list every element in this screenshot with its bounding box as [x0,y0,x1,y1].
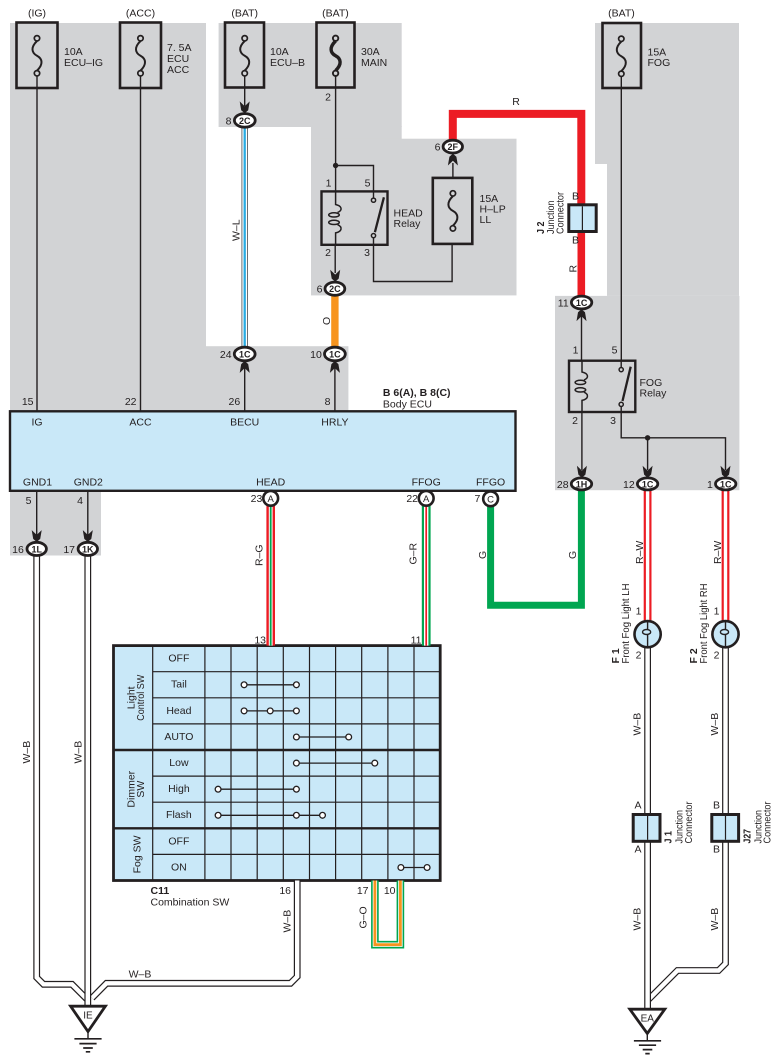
wire fuse ECU-B to connector 2C [244,76,246,106]
svg-text:G: G [567,551,579,559]
junction dot [333,163,338,168]
svg-text:W–B: W–B [709,908,721,931]
pin 11 1C [558,297,569,309]
fuse 7.5A ECU-ACC [120,23,161,89]
lamp F2 front fog light RH [712,621,738,647]
pin 2 HEAD relay [325,247,331,259]
value 7.5A ECU ACC [167,42,192,76]
junction connector J27 [712,815,739,842]
wire W-B combination switch pin 16 to IE [92,881,297,999]
svg-text:W–B: W–B [73,741,85,764]
svg-text:B: B [713,800,720,812]
pin 2 F2 [714,650,720,662]
label (IG) [28,8,46,20]
svg-text:HRLY: HRLY [321,417,348,429]
label G-O [358,906,370,928]
svg-text:GND2: GND2 [74,477,103,489]
svg-text:12: 12 [623,479,635,491]
svg-text:IG: IG [31,417,42,429]
pin 17 1K [63,544,75,556]
value 10A ECU-IG [64,46,103,69]
svg-text:Body ECU: Body ECU [383,399,432,411]
svg-text:11: 11 [411,635,422,647]
svg-text:Tail: Tail [171,679,187,691]
svg-text:Flash: Flash [166,809,192,821]
svg-text:B: B [572,235,579,247]
wire ECU GND1 to 1L [36,491,38,536]
label W-B pin16 [282,910,294,933]
label J27 junction connector [741,801,773,843]
label (ACC) [126,8,155,20]
pin 2 FOG relay [572,415,578,427]
svg-text:13: 13 [254,635,266,647]
pin 22 [125,396,137,408]
pin 15 [22,396,34,408]
connector 24 1C [234,347,255,373]
svg-text:22: 22 [406,493,418,505]
label R below J2 [568,265,580,273]
value 10A ECU-B [270,46,305,69]
connector 12 1C [637,466,657,490]
net HEAD [256,477,286,489]
svg-text:BECU: BECU [230,417,259,429]
svg-text:(BAT): (BAT) [231,8,258,20]
switch contacts auto [294,734,352,740]
svg-text:W–B: W–B [632,908,644,931]
label W-B 1L [21,741,33,764]
connector 23 A [263,491,278,506]
pin 2 F1 [636,650,642,662]
svg-text:ACC: ACC [167,64,190,76]
svg-text:23: 23 [251,493,263,505]
svg-text:(ACC): (ACC) [126,8,155,20]
svg-text:1C: 1C [329,350,341,360]
svg-text:B: B [572,191,579,203]
row Head [166,705,191,717]
svg-text:4: 4 [77,495,83,507]
wire FOG relay pin 2 to 1H [581,412,583,470]
svg-text:ACC: ACC [129,417,152,429]
fuse 15A H-LP LL [433,178,473,244]
label G left [477,551,489,559]
svg-text:G: G [477,551,489,559]
pin 5 GND1 [26,495,32,507]
label G-R [407,542,419,564]
svg-text:FFOG: FFOG [412,477,441,489]
wire W-B 1K to IE [84,556,91,1007]
wire R-G from HEAD 23 to combination switch pin 13 [266,505,275,645]
wire FOG relay pin 3 to 1C 1C [621,412,725,470]
svg-text:A: A [423,494,430,505]
svg-text:16: 16 [12,544,24,556]
net GND1 [23,477,52,489]
row High [168,783,190,795]
pin 13 [254,635,266,647]
label W-B LH upper [632,713,644,736]
wire ECU GND2 to 1K [87,491,89,536]
svg-text:2C: 2C [239,116,251,126]
pin 8 2C [226,115,232,127]
row OFF [168,653,189,665]
connector 1 1C [716,466,736,490]
svg-text:1C: 1C [720,479,732,489]
svg-text:R: R [568,265,580,273]
group light control SW [126,675,148,721]
svg-text:C: C [487,494,494,505]
wire HEAD relay pin 3 to fuse H-LP [374,244,453,282]
label J1 junction connector [663,801,695,843]
fuse 10A ECU-IG [17,23,58,89]
row Low [169,757,189,769]
label B6(A) B8(C) body ECU [383,387,451,411]
junction connector J2 [569,205,596,232]
net FFGO [476,477,505,489]
label W-B horizontal [129,969,152,981]
svg-text:OFF: OFF [168,653,189,665]
net HRLY [321,417,348,429]
pin 1 F1 [636,606,642,618]
pin 4 GND2 [77,495,83,507]
connector 17 1K [78,530,97,555]
svg-text:2C: 2C [329,284,341,294]
switch contacts head [241,708,299,714]
svg-text:FFGO: FFGO [476,477,505,489]
pin 12 1C [623,479,635,491]
svg-text:LL: LL [480,214,492,226]
svg-text:Front Fog Light RH: Front Fog Light RH [698,584,710,664]
svg-text:Fog SW: Fog SW [132,835,144,873]
svg-text:O: O [321,317,333,325]
svg-text:G–O: G–O [358,906,370,928]
label W-B RH upper [709,713,721,736]
svg-text:Head: Head [166,705,191,717]
svg-text:2: 2 [636,650,642,662]
svg-text:1C: 1C [642,479,654,489]
svg-text:1L: 1L [31,544,42,554]
label W-B LH lower [632,908,644,931]
label B above J27 [713,800,720,812]
svg-text:7: 7 [474,493,480,505]
relay HEAD [322,191,388,244]
svg-text:G–R: G–R [407,542,419,564]
label R-W RH [712,541,724,564]
group fog SW [132,835,144,873]
wire fuse MAIN to HEAD relay pin 1 [335,76,337,191]
svg-text:1C: 1C [576,298,588,308]
label A above J1 [634,800,641,812]
pin 22 FFOG [406,493,418,505]
wire W-B fog light RH to EA [649,647,726,999]
pin 23 [251,493,263,505]
net FFOG [412,477,441,489]
pin 1 FOG relay [573,345,579,357]
svg-text:3: 3 [364,247,370,259]
connector 28 1H [571,466,591,490]
svg-text:Combination SW: Combination SW [151,897,230,909]
label (BAT) FOG [608,8,635,20]
pin 16 1L [12,544,24,556]
label R-W LH [634,541,646,564]
wire 1C to ECU pin 8 [334,361,336,412]
ground IE [71,1006,106,1052]
svg-text:1: 1 [636,606,642,618]
svg-text:8: 8 [325,396,331,408]
wire fuse H-LP to 2F [452,163,454,178]
svg-text:16: 16 [279,885,291,897]
label R [512,96,520,108]
wire G-R from FFOG 22 to combination switch pin 11 [422,505,431,645]
svg-text:1: 1 [326,178,332,190]
wire branch to HEAD relay pin 5 [336,166,374,192]
wire G-O combination switch pin 17 to pin 10 [375,881,401,945]
svg-text:8: 8 [226,115,232,127]
switch contacts high [215,786,299,792]
row Flash [166,809,192,821]
svg-text:10: 10 [384,885,396,897]
relay FOG [569,361,635,412]
svg-text:Connector: Connector [683,801,695,843]
net BECU [230,417,259,429]
svg-text:5: 5 [612,345,618,357]
pin 6 2C [317,284,323,296]
switch contacts fog on [398,865,430,871]
label O [321,317,333,325]
pin 16 [279,885,291,897]
svg-text:1C: 1C [239,350,251,360]
svg-text:17: 17 [357,885,369,897]
svg-text:ECU–B: ECU–B [270,57,305,69]
connector 10 1C [325,347,346,373]
svg-text:IE: IE [83,1011,93,1022]
label B below J27 [713,844,720,856]
wire 1C to ECU pin 26 [244,361,246,412]
svg-text:Relay: Relay [640,388,668,400]
svg-text:15: 15 [22,396,34,408]
row Tail [171,679,187,691]
svg-text:Relay: Relay [394,218,422,230]
net ACC [129,417,152,429]
svg-text:A: A [268,494,275,505]
svg-text:Front Fog Light LH: Front Fog Light LH [620,584,632,664]
svg-text:R–W: R–W [634,541,646,564]
svg-text:AUTO: AUTO [164,731,193,743]
wire fuse ECU-ACC to ECU pin 22 [140,76,142,411]
net GND2 [74,477,103,489]
connector 6 2C [325,270,345,296]
svg-text:ECU–IG: ECU–IG [64,57,103,69]
wire O from 2C to 1C [331,295,338,347]
label HEAD relay [394,208,424,231]
pin 3 HEAD relay [364,247,370,259]
svg-text:Low: Low [169,757,189,769]
pin 28 1H [557,479,569,491]
junction connector J1 [633,815,660,842]
wire harness shading [10,23,739,556]
value 15A FOG [648,47,671,70]
combination switch C11 table [114,646,441,881]
value 30A MAIN [361,46,387,69]
pin 1 HEAD relay [326,178,332,190]
label B above J2 [572,191,579,203]
svg-text:2F: 2F [448,142,459,152]
svg-text:2: 2 [325,92,331,104]
svg-text:Connector: Connector [554,192,566,234]
svg-text:B 6(A), B 8(C): B 6(A), B 8(C) [383,387,451,399]
svg-text:W–B: W–B [709,713,721,736]
svg-text:A: A [634,844,641,856]
lamp F1 front fog light LH [635,621,661,647]
row OFF fog [168,835,189,847]
svg-text:High: High [168,783,190,795]
svg-text:SW: SW [135,781,147,798]
wire fuse FOG to FOG relay pin 5 [620,76,622,361]
svg-text:3: 3 [610,415,616,427]
svg-text:1: 1 [573,345,579,357]
wire W-B fog light LH to EA [644,647,651,1009]
pin 1 1C [707,479,713,491]
svg-text:R: R [512,96,520,108]
wire 1C to FOG relay pin 1 [581,309,583,361]
wire R from 2F to junction connector J2 [453,114,582,205]
fuse 15A FOG [603,23,642,88]
svg-text:GND1: GND1 [23,477,52,489]
connector 22 A [419,491,434,506]
svg-text:EA: EA [641,1014,655,1025]
label B below J2 [572,235,579,247]
switch contacts low [294,760,378,766]
pin 26 [229,396,241,408]
svg-text:(BAT): (BAT) [322,8,349,20]
wire W-B 1L to IE [37,556,87,1000]
label W-B RH lower [709,908,721,931]
label C11 combination SW [151,885,230,909]
wire R-W to fog light RH [722,490,730,622]
svg-text:B: B [713,844,720,856]
row AUTO [164,731,193,743]
connector 7 C [483,491,498,506]
svg-text:W–B: W–B [632,713,644,736]
value 15A H-LP LL [480,193,506,226]
pin 6 2F [435,141,441,153]
svg-text:1: 1 [707,479,713,491]
body ECU B6(A) B8(C) box [10,411,516,491]
svg-text:OFF: OFF [168,835,189,847]
ground EA [630,1009,665,1053]
label A below J1 [634,844,641,856]
svg-text:W–B: W–B [282,910,294,933]
svg-text:2: 2 [572,415,578,427]
label FOG relay [640,377,668,400]
pin 8 [325,396,331,408]
connector 16 1L [27,530,46,555]
pin 3 FOG relay [610,415,616,427]
svg-text:1: 1 [714,606,720,618]
svg-text:5: 5 [365,178,371,190]
row ON [171,861,187,873]
pin 7 FFGO [474,493,480,505]
junction dot [645,435,650,440]
svg-text:2: 2 [714,650,720,662]
svg-text:Connector: Connector [762,801,774,843]
svg-text:1H: 1H [576,479,588,489]
connector 6 2F [443,140,462,165]
svg-text:HEAD: HEAD [256,477,286,489]
svg-text:1K: 1K [82,544,94,554]
pin 2 MAIN [325,92,331,104]
svg-text:10: 10 [310,349,322,361]
svg-text:FOG: FOG [648,57,671,69]
svg-text:2: 2 [325,247,331,259]
label W-B 1K [73,741,85,764]
switch contacts flash [215,812,325,818]
wire G from FFGO to 1H [491,490,582,606]
svg-text:5: 5 [26,495,32,507]
svg-text:6: 6 [317,284,323,296]
svg-text:ON: ON [171,861,187,873]
svg-text:6: 6 [435,141,441,153]
svg-text:24: 24 [220,349,232,361]
svg-text:22: 22 [125,396,137,408]
label F2 front fog light RH [688,584,710,664]
svg-text:(BAT): (BAT) [608,8,635,20]
svg-text:11: 11 [558,297,569,309]
wire HEAD relay pin 2 to 2C [334,245,336,273]
pin 17 [357,885,369,897]
label (BAT) ECU-B [231,8,258,20]
fuse 30A MAIN [317,23,355,88]
svg-text:28: 28 [557,479,569,491]
fuse 10A ECU-B [225,23,264,88]
svg-text:MAIN: MAIN [361,57,387,69]
wire W-L from 2C to 1C [241,127,248,347]
svg-text:17: 17 [63,544,75,556]
svg-text:C11: C11 [151,885,170,897]
pin 11 [411,635,422,647]
pin 5 FOG relay [612,345,618,357]
wire R from J2 to 1C [577,231,585,297]
group dimmer SW [126,770,148,807]
net IG [31,417,42,429]
pin 1 F2 [714,606,720,618]
svg-text:R–G: R–G [254,544,266,566]
svg-text:R–W: R–W [712,541,724,564]
switch contacts tail [241,682,299,688]
wire R-W to fog light LH [644,490,652,622]
svg-text:A: A [634,800,641,812]
pin 24 1C [220,349,232,361]
label J2 junction connector [535,192,567,234]
svg-text:W–B: W–B [129,969,152,981]
pin 10 1C [310,349,322,361]
svg-text:26: 26 [229,396,241,408]
label R-G [254,544,266,566]
label W-L [230,219,242,241]
svg-text:(IG): (IG) [28,8,46,20]
svg-text:Control SW: Control SW [135,675,147,721]
svg-text:W–B: W–B [21,741,33,764]
label G right [567,551,579,559]
label F1 front fog light LH [610,584,632,664]
pin 5 HEAD relay [365,178,371,190]
svg-text:W–L: W–L [230,219,242,241]
pin 10 [384,885,396,897]
connector 11 1C [571,296,591,321]
wire fuse ECU-IG to ECU pin 15 [36,76,38,411]
label (BAT) MAIN [322,8,349,20]
connector 8 2C [234,101,255,127]
